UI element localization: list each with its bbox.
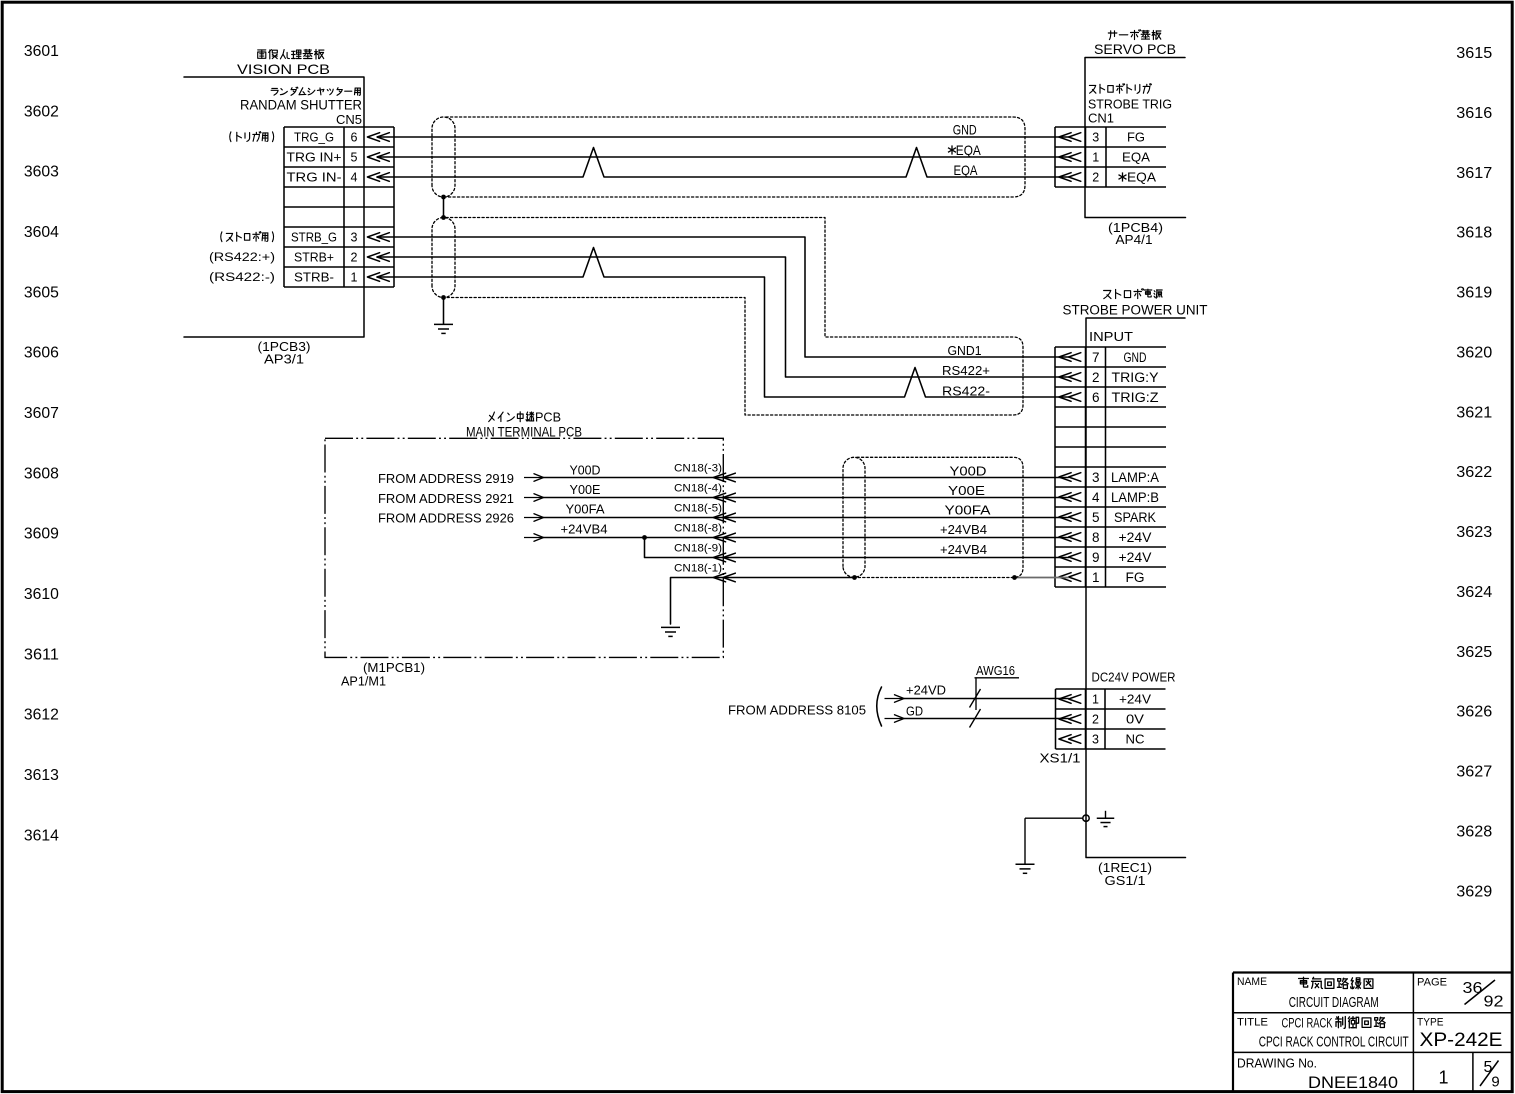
svg-text:TRG IN-: TRG IN- [287, 170, 342, 184]
svg-text:3: 3 [1092, 732, 1099, 746]
svg-text:1: 1 [1092, 692, 1099, 706]
svg-text:6: 6 [1092, 390, 1100, 405]
svg-text:+24VD: +24VD [906, 683, 946, 697]
svg-text:CN5: CN5 [336, 112, 362, 127]
svg-text:4: 4 [351, 170, 358, 184]
svg-text:CN18(-1): CN18(-1) [674, 563, 722, 575]
svg-text:(RS422:+): (RS422:+) [209, 252, 275, 264]
svg-text:3606: 3606 [24, 345, 59, 362]
svg-text:0V: 0V [1126, 712, 1145, 726]
svg-text:1: 1 [351, 270, 358, 284]
svg-text:DC24V POWER: DC24V POWER [1092, 670, 1176, 685]
svg-text:3625: 3625 [1456, 644, 1492, 661]
svg-text:Y00E: Y00E [570, 483, 601, 497]
svg-text:LAMP:A: LAMP:A [1111, 470, 1159, 485]
svg-text:XP-242E: XP-242E [1420, 1030, 1503, 1051]
svg-text:Y00FA: Y00FA [566, 502, 606, 516]
svg-text:XS1/1: XS1/1 [1040, 751, 1081, 766]
svg-text:3607: 3607 [24, 405, 59, 422]
svg-text:7: 7 [1092, 350, 1100, 365]
svg-text:3609: 3609 [24, 526, 59, 543]
svg-text:3601: 3601 [24, 43, 59, 60]
svg-text:EQA: EQA [1122, 150, 1151, 164]
svg-text:FROM ADDRESS 2926: FROM ADDRESS 2926 [378, 511, 514, 526]
svg-text:3624: 3624 [1456, 584, 1492, 601]
svg-text:EQA: EQA [954, 162, 979, 178]
svg-text:EQA: EQA [1127, 170, 1157, 184]
svg-text:8: 8 [1092, 530, 1100, 545]
svg-text:3619: 3619 [1456, 285, 1492, 302]
svg-text:Y00D: Y00D [950, 464, 987, 478]
svg-text:AWG16: AWG16 [976, 664, 1015, 678]
svg-text:+24V: +24V [1119, 530, 1152, 545]
svg-text:Y00E: Y00E [948, 484, 985, 498]
svg-text:5: 5 [351, 150, 358, 164]
svg-text:3628: 3628 [1456, 823, 1492, 840]
svg-text:RS422-: RS422- [942, 384, 990, 398]
svg-text:3603: 3603 [24, 164, 59, 181]
svg-text:36: 36 [1463, 980, 1483, 997]
svg-text:+24VB4: +24VB4 [940, 543, 987, 557]
svg-text:3610: 3610 [24, 586, 59, 603]
svg-text:9: 9 [1092, 550, 1100, 565]
svg-text:TITLE: TITLE [1237, 1016, 1268, 1028]
svg-text:92: 92 [1484, 994, 1504, 1011]
svg-text:VISION PCB: VISION PCB [237, 61, 330, 77]
svg-text:3614: 3614 [24, 827, 59, 844]
svg-text:3623: 3623 [1456, 524, 1492, 541]
svg-text:FROM ADDRESS 8105: FROM ADDRESS 8105 [728, 703, 866, 718]
svg-text:3621: 3621 [1456, 404, 1492, 421]
svg-text:TRIG:Y: TRIG:Y [1112, 370, 1159, 385]
svg-text:STROBE POWER UNIT: STROBE POWER UNIT [1063, 302, 1208, 317]
svg-text:(RS422:-): (RS422:-) [209, 272, 275, 284]
svg-text:3617: 3617 [1456, 165, 1492, 182]
svg-text:3608: 3608 [24, 465, 59, 482]
svg-text:3622: 3622 [1456, 464, 1492, 481]
svg-text:STRB_G: STRB_G [291, 230, 337, 244]
svg-text:3: 3 [1092, 130, 1099, 144]
svg-text:GND: GND [953, 122, 977, 138]
svg-text:STROBE TRIG: STROBE TRIG [1088, 97, 1172, 112]
svg-text:CN18(-4): CN18(-4) [674, 483, 722, 495]
svg-text:6: 6 [351, 130, 358, 144]
svg-text:AP1/M1: AP1/M1 [341, 674, 386, 689]
svg-text:CPCI RACK: CPCI RACK [1282, 1015, 1333, 1030]
svg-text:3602: 3602 [24, 103, 59, 120]
svg-text:CPCI RACK CONTROL CIRCUIT: CPCI RACK CONTROL CIRCUIT [1259, 1033, 1409, 1050]
svg-text:TRG_G: TRG_G [294, 130, 334, 144]
svg-text:FG: FG [1127, 130, 1145, 144]
svg-text:SPARK: SPARK [1114, 510, 1156, 525]
svg-text:2: 2 [1092, 370, 1100, 385]
svg-text:CIRCUIT DIAGRAM: CIRCUIT DIAGRAM [1289, 994, 1379, 1011]
svg-text:3: 3 [1092, 470, 1100, 485]
svg-text:CN18(-5): CN18(-5) [674, 503, 722, 515]
svg-text:RANDAM SHUTTER: RANDAM SHUTTER [240, 97, 362, 112]
svg-text:FG: FG [1126, 570, 1145, 585]
svg-text:1: 1 [1092, 150, 1099, 164]
svg-text:2: 2 [1092, 712, 1099, 726]
svg-text:+24V: +24V [1119, 692, 1152, 706]
svg-text:4: 4 [1092, 490, 1100, 505]
svg-text:CN1: CN1 [1088, 111, 1114, 126]
svg-text:Y00D: Y00D [570, 463, 601, 477]
svg-text:DNEE1840: DNEE1840 [1308, 1073, 1398, 1092]
svg-text:CN18(-8): CN18(-8) [674, 523, 722, 535]
svg-text:1: 1 [1438, 1067, 1448, 1087]
svg-text:TRG IN+: TRG IN+ [287, 150, 342, 164]
svg-text:DRAWING No.: DRAWING No. [1237, 1056, 1317, 1070]
svg-text:EQA: EQA [956, 142, 982, 158]
svg-text:CN18(-3): CN18(-3) [674, 463, 722, 475]
svg-text:PCB: PCB [535, 410, 561, 424]
svg-text:TYPE: TYPE [1417, 1016, 1444, 1028]
svg-text:GS1/1: GS1/1 [1105, 873, 1146, 888]
svg-text:3615: 3615 [1456, 45, 1492, 62]
svg-text:3620: 3620 [1456, 344, 1492, 361]
svg-text:TRIG:Z: TRIG:Z [1112, 390, 1159, 405]
svg-text:STRB+: STRB+ [294, 250, 334, 264]
svg-text:5: 5 [1092, 510, 1100, 525]
svg-text:3629: 3629 [1456, 883, 1492, 900]
svg-text:2: 2 [1092, 170, 1099, 184]
svg-text:CN18(-9): CN18(-9) [674, 543, 722, 555]
svg-text:FROM ADDRESS 2921: FROM ADDRESS 2921 [378, 491, 514, 506]
svg-text:3611: 3611 [24, 646, 59, 663]
svg-text:3612: 3612 [24, 707, 59, 724]
svg-text:SERVO PCB: SERVO PCB [1094, 41, 1176, 57]
svg-text:3604: 3604 [24, 224, 59, 241]
svg-text:3613: 3613 [24, 767, 59, 784]
svg-text:3627: 3627 [1456, 764, 1492, 781]
svg-text:PAGE: PAGE [1417, 976, 1447, 988]
svg-text:NC: NC [1126, 732, 1145, 746]
svg-text:3: 3 [351, 230, 358, 244]
svg-text:GND: GND [1124, 350, 1147, 365]
svg-text:3616: 3616 [1456, 105, 1492, 122]
svg-text:+24VB4: +24VB4 [561, 522, 608, 536]
svg-text:2: 2 [351, 250, 358, 264]
svg-text:+24VB4: +24VB4 [940, 523, 987, 537]
svg-text:NAME: NAME [1237, 976, 1267, 988]
svg-text:FROM ADDRESS 2919: FROM ADDRESS 2919 [378, 471, 514, 486]
svg-text:1: 1 [1092, 570, 1100, 585]
svg-text:GD: GD [906, 704, 923, 718]
svg-text:RS422+: RS422+ [942, 364, 990, 378]
svg-text:AP3/1: AP3/1 [264, 352, 304, 367]
svg-text:Y00FA: Y00FA [945, 503, 992, 517]
svg-text:+24V: +24V [1119, 550, 1152, 565]
svg-text:LAMP:B: LAMP:B [1111, 490, 1159, 505]
svg-text:STRB-: STRB- [294, 270, 334, 284]
svg-text:3618: 3618 [1456, 225, 1492, 242]
svg-text:9: 9 [1491, 1073, 1499, 1090]
svg-text:AP4/1: AP4/1 [1116, 232, 1153, 247]
svg-text:INPUT: INPUT [1089, 329, 1133, 344]
svg-text:3626: 3626 [1456, 704, 1492, 721]
svg-text:3605: 3605 [24, 284, 59, 301]
svg-text:GND1: GND1 [948, 344, 982, 358]
svg-text:MAIN TERMINAL PCB: MAIN TERMINAL PCB [466, 424, 582, 439]
